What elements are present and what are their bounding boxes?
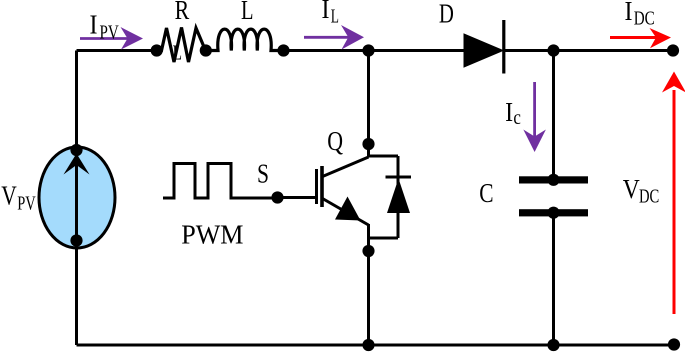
current arrow I_DC head [650,28,672,48]
junction dot inductor right [277,44,289,56]
svg-text:PV: PV [100,23,119,44]
node bottom transistor branch [362,339,374,351]
wire capacitor branch upper [552,51,555,178]
node top of transistor branch [362,44,374,56]
wire IGBT bottom horizontal to body diode [369,237,399,240]
voltage arrow V_DC shaft [673,90,676,314]
wire IGBT emitter vertical [367,224,370,345]
current arrow I_L head [341,25,364,50]
svg-text:L: L [173,41,183,65]
wire top-left horizontal [77,49,159,52]
wire capacitor branch lower [552,215,555,345]
svg-text:R: R [175,0,190,25]
node output terminal top [667,44,679,56]
junction dot resistor-inductor [200,44,212,56]
node IGBT collector [362,138,374,150]
diode D cathode bar [502,20,505,74]
inductor L coil [206,29,284,50]
node gate S [271,191,283,203]
node capacitor top plate [547,174,559,186]
node capacitor bottom plate [547,207,559,219]
svg-text:I: I [322,0,330,24]
svg-text:DC: DC [639,187,659,208]
svg-text:I: I [90,10,98,40]
svg-text:L: L [241,0,254,25]
transistor Q emitter arrowhead [335,197,361,221]
body diode triangle [387,179,410,214]
PWM square wave [163,164,278,199]
diode D triangle [464,34,503,67]
node source top [70,144,82,156]
svg-text:C: C [479,178,493,208]
svg-text:DC: DC [634,9,655,30]
capacitor C bottom plate [519,209,588,216]
svg-text:Q: Q [327,126,343,156]
svg-text:I: I [625,0,633,26]
source V_PV internal arrow up [64,154,90,175]
capacitor C top plate [519,176,588,183]
wire top diode-to-output [503,49,674,52]
current arrow I_PV head [121,27,144,50]
wire bottom [77,344,675,347]
wire through source V_PV [75,148,78,242]
svg-text:I: I [505,97,513,127]
current arrow I_c head [523,130,546,153]
node bottom capacitor branch [547,339,559,351]
svg-text:D: D [439,0,454,29]
source V_PV ellipse [39,147,115,248]
current arrow I_PV shaft [80,37,129,40]
transistor Q collector diagonal [323,157,369,177]
transistor Q emitter diagonal [323,199,369,226]
node IGBT emitter [362,245,374,257]
transistor Q IGBT gate bar [315,169,318,204]
voltage arrow V_DC head [662,72,685,93]
transistor Q IGBT body bar [320,166,324,207]
junction dot resistor left [151,44,163,56]
current arrow I_DC shaft [610,36,657,39]
svg-text:c: c [513,108,521,129]
wire left vertical [75,51,78,346]
wire IGBT top horizontal to body diode [369,155,399,158]
svg-text:V: V [623,174,640,204]
resistor R (subscript L) zigzag [157,28,206,63]
svg-text:L: L [331,7,339,28]
node source bottom [70,234,82,246]
wire top inductor-to-diode [283,49,465,52]
current arrow I_c shaft [533,82,536,138]
svg-text:PWM: PWM [181,220,243,250]
wire gate lead S [278,196,317,199]
node output terminal bottom [668,338,680,350]
current arrow I_L shaft [304,36,350,39]
svg-text:V: V [1,180,17,210]
svg-text:PV: PV [17,193,36,214]
svg-text:S: S [257,159,269,189]
wire body diode vertical [397,156,400,238]
wire IGBT collector vertical [367,51,370,158]
node top of capacitor branch [547,44,559,56]
body diode cathode bar [386,176,412,179]
